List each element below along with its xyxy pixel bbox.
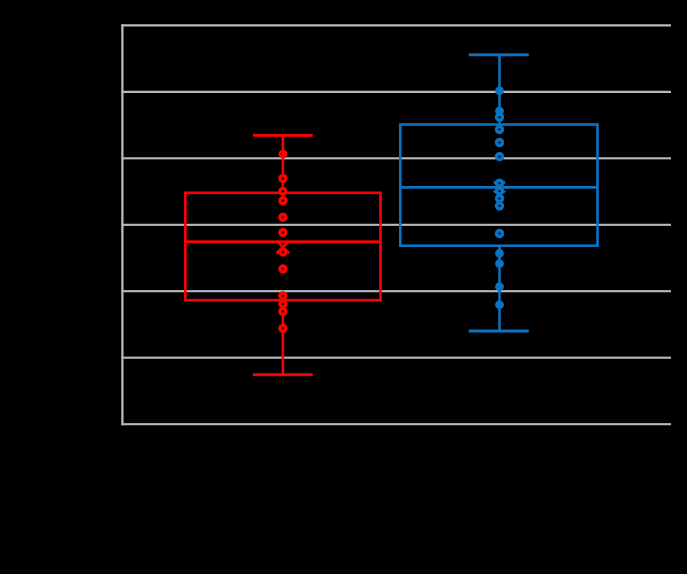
red open point y251 xyxy=(280,249,286,255)
blue open point y129 xyxy=(497,126,503,132)
blue filled point y264 xyxy=(495,259,504,268)
blue upper whisker cap xyxy=(469,53,529,56)
red upper whisker cap xyxy=(253,134,313,137)
red lower whisker stem xyxy=(282,300,285,375)
gridline y5 xyxy=(121,290,671,292)
blue upper whisker stem xyxy=(498,55,501,125)
blue open point y198 xyxy=(497,196,503,202)
red open point y269 xyxy=(280,266,286,272)
blue median line xyxy=(400,186,597,189)
red open point y201 xyxy=(280,198,286,204)
gridline y1 (top) xyxy=(121,24,671,26)
blue open point y117 xyxy=(497,114,503,120)
red open point y232 xyxy=(280,230,286,236)
gridline y3 xyxy=(121,157,671,159)
red open point y328 xyxy=(280,326,286,332)
blue filled point y111 xyxy=(495,107,504,116)
red open point y296 xyxy=(280,293,286,299)
red filled point y154 xyxy=(279,150,288,159)
red series (group 1) xyxy=(185,135,380,374)
gridline y6 xyxy=(121,357,671,359)
blue lower whisker stem xyxy=(498,246,501,331)
blue lower whisker cap xyxy=(469,330,529,333)
red open point y217 xyxy=(280,214,286,220)
red open point y304 xyxy=(280,301,286,307)
red upper whisker stem xyxy=(282,135,285,193)
gridline y2 xyxy=(121,91,671,93)
blue filled point y287 xyxy=(495,282,504,291)
blue mean X marker xyxy=(494,182,505,193)
red lower whisker cap xyxy=(253,373,313,376)
blue filled point y253 xyxy=(495,249,504,258)
blue open point y157 xyxy=(497,154,503,160)
gridline y7 (bottom) xyxy=(121,423,671,425)
red mean X marker xyxy=(277,241,290,254)
y-axis line xyxy=(121,24,123,425)
red open point y191 xyxy=(280,188,286,194)
blue series (group 2) xyxy=(400,55,597,331)
red open point y178 xyxy=(280,176,286,182)
red median line xyxy=(185,240,380,243)
blue box rect xyxy=(400,125,597,246)
blue open point y233 xyxy=(497,231,503,237)
red box rect xyxy=(185,193,380,300)
blue open point y183 xyxy=(497,180,503,186)
blue open point y191 xyxy=(497,188,503,194)
blue filled point y91 xyxy=(495,86,504,95)
red open point y311 xyxy=(280,309,286,315)
blue filled point y305 xyxy=(495,300,504,309)
gridline y4 xyxy=(121,224,671,226)
blue open point y206 xyxy=(497,203,503,209)
blue open point y142 xyxy=(497,140,503,146)
